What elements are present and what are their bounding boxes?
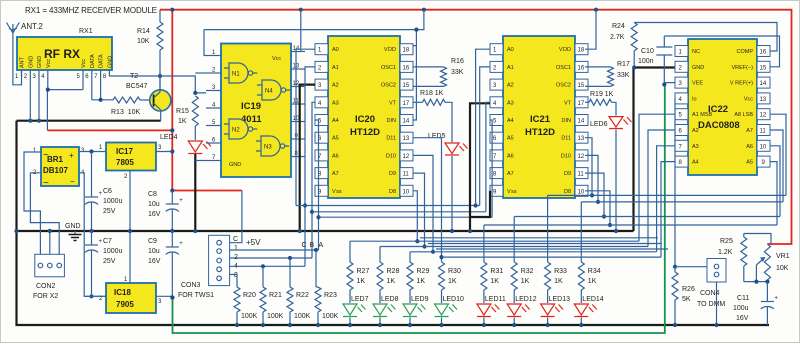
svg-text:1K: 1K	[178, 118, 187, 125]
svg-text:Vcc: Vcc	[744, 96, 753, 102]
wire data mesh horizontals to DAC	[350, 241, 661, 257]
resistor R25 1.2K	[718, 234, 771, 282]
connector CON4 TO DMM	[675, 259, 726, 328]
wire GND black bus	[14, 68, 769, 326]
svg-text:4011: 4011	[241, 114, 262, 125]
resistor R29 1K	[407, 262, 429, 303]
svg-text:OSC2: OSC2	[381, 83, 396, 89]
svg-text:+: +	[99, 191, 103, 197]
wire IC18 pin2 input	[84, 295, 106, 297]
svg-text:11: 11	[578, 172, 585, 178]
LED LED10	[435, 296, 465, 317]
svg-text:A2: A2	[332, 83, 339, 89]
svg-text:OSC1: OSC1	[381, 65, 396, 71]
svg-text:A7: A7	[746, 128, 753, 134]
wire IC21 A3/Vss to gnd (black)	[468, 103, 490, 233]
svg-text:C10: C10	[641, 48, 654, 55]
svg-text:OSC1: OSC1	[556, 65, 571, 71]
wire CON3 line 2	[230, 256, 312, 260]
svg-text:T2: T2	[130, 73, 138, 80]
wire RF RX pin8 / collector node to IC19 inputs	[109, 73, 206, 95]
svg-text:DATA: DATA	[90, 54, 96, 68]
svg-text:OSC2: OSC2	[556, 83, 571, 89]
svg-text:VT: VT	[389, 100, 397, 106]
wire LED13 cathode to bottom bus	[546, 318, 550, 328]
svg-text:18: 18	[403, 48, 410, 54]
resistor R26 5K	[672, 267, 695, 327]
svg-text:LED8: LED8	[381, 296, 399, 303]
wire LED9 cathode to bottom bus	[408, 318, 412, 328]
wire address mesh horizontals to IC21	[296, 203, 492, 217]
svg-text:12: 12	[578, 154, 585, 160]
svg-text:CON3: CON3	[181, 282, 201, 289]
svg-text:LED4: LED4	[160, 134, 178, 141]
svg-text:TO DMM: TO DMM	[697, 301, 725, 308]
svg-text:11: 11	[403, 172, 410, 178]
wire IC19 Vcc pin14 to +5V	[300, 10, 302, 52]
svg-text:100u: 100u	[733, 305, 749, 312]
svg-text:A8 LSB: A8 LSB	[734, 112, 753, 118]
wire IC22 data inputs A1-A4	[639, 114, 675, 257]
svg-text:100K: 100K	[267, 313, 284, 320]
svg-text:C11: C11	[737, 295, 749, 302]
svg-text:Vcc: Vcc	[46, 59, 52, 68]
svg-text:R19 1K: R19 1K	[590, 91, 614, 98]
svg-text:A6: A6	[746, 144, 753, 150]
wire extra data-bus lines to DAC	[420, 238, 668, 249]
svg-text:5K: 5K	[682, 296, 691, 303]
svg-text:R17: R17	[617, 61, 630, 68]
IC18 7905	[99, 277, 162, 313]
svg-text:R26: R26	[682, 286, 695, 293]
svg-text:D9: D9	[389, 171, 396, 177]
svg-text:A3: A3	[507, 100, 514, 106]
ground symbol	[65, 223, 82, 241]
potentiometer VR1 10K	[744, 244, 790, 284]
capacitor C11 100u 16V	[733, 282, 778, 325]
svg-text:D11: D11	[386, 136, 396, 142]
wire IC20 address pins to mesh	[296, 49, 321, 266]
svg-text:DB107: DB107	[43, 166, 68, 175]
resistor R22 100K	[287, 258, 311, 327]
svg-text:R15: R15	[176, 108, 189, 115]
svg-text:R29: R29	[417, 268, 430, 275]
svg-text:100K: 100K	[322, 313, 339, 320]
IC19 4011 body	[206, 44, 305, 178]
svg-text:1K: 1K	[417, 278, 426, 285]
svg-text:VT: VT	[564, 100, 572, 106]
svg-text:DIN: DIN	[562, 118, 572, 124]
svg-text:CON4: CON4	[700, 290, 720, 297]
svg-text:15: 15	[760, 65, 767, 71]
wire DIN riser IC20	[413, 46, 416, 120]
svg-text:14: 14	[578, 119, 585, 125]
svg-text:A4: A4	[692, 160, 699, 166]
svg-text:+: +	[774, 296, 778, 302]
svg-text:C8: C8	[148, 191, 157, 198]
svg-text:R22: R22	[296, 292, 309, 299]
svg-text:C6: C6	[103, 188, 112, 195]
svg-text:IC18: IC18	[114, 288, 131, 297]
svg-text:V REF(+): V REF(+)	[730, 81, 753, 87]
svg-text:ANT: ANT	[20, 56, 26, 68]
svg-text:LED9: LED9	[411, 296, 429, 303]
svg-text:+: +	[69, 151, 74, 160]
resistor R33 1K	[545, 262, 567, 303]
svg-text:1K: 1K	[357, 278, 366, 285]
svg-text:DATA: DATA	[99, 54, 105, 68]
svg-text:GND: GND	[37, 56, 43, 68]
LED LED5	[428, 133, 468, 155]
svg-text:VR1: VR1	[776, 253, 790, 260]
svg-text:10u: 10u	[148, 201, 160, 208]
resistor R19 1K	[585, 91, 616, 116]
wire LED14 cathode to bottom bus	[579, 318, 583, 328]
wire mesh horizontals LEDs 11-14 to IC22 A5-A8	[484, 195, 786, 262]
svg-text:1K: 1K	[588, 278, 597, 285]
svg-text:~: ~	[43, 150, 49, 161]
svg-text:BC547: BC547	[126, 83, 148, 90]
svg-text:1.2K: 1.2K	[718, 249, 733, 256]
capacitor C6 1000u 25V	[85, 152, 123, 234]
RF RX module RX1	[15, 28, 113, 80]
LED LED13	[541, 296, 571, 317]
svg-text:HT12D: HT12D	[525, 127, 555, 138]
svg-text:IC19: IC19	[241, 101, 261, 112]
wire RF RX pins 2,3 to gnd line	[30, 77, 39, 121]
svg-text:N4: N4	[265, 89, 273, 95]
svg-text:FOR X2: FOR X2	[33, 293, 58, 300]
svg-text:1K: 1K	[387, 278, 396, 285]
svg-text:10u: 10u	[148, 248, 160, 255]
gate N4	[257, 80, 290, 100]
svg-text:2.7K: 2.7K	[610, 34, 625, 41]
IC22 DAC0808	[675, 39, 770, 175]
svg-text:10K: 10K	[776, 265, 789, 272]
connector CON3 FOR TWS1	[178, 235, 238, 299]
svg-text:IC17: IC17	[116, 147, 133, 156]
svg-text:16: 16	[578, 65, 585, 71]
wire LED7 cathode to bottom bus	[348, 318, 352, 328]
resistor R30 1K	[439, 262, 461, 303]
svg-text:D8: D8	[389, 189, 396, 195]
svg-text:15: 15	[403, 83, 410, 89]
IC17 7805	[99, 143, 162, 181]
wire IC21 address pins to mesh	[476, 49, 493, 217]
svg-text:18: 18	[578, 48, 585, 54]
svg-text:+: +	[179, 241, 183, 247]
svg-text:−: −	[70, 177, 75, 186]
transistor T2 BC547	[126, 73, 171, 121]
wire IC21 VDD to +5V	[585, 10, 596, 50]
svg-text:R24: R24	[612, 23, 625, 30]
svg-text:D8: D8	[564, 189, 571, 195]
capacitor C9 10u 16V	[148, 231, 183, 300]
gate N3	[256, 136, 289, 156]
svg-text:A5: A5	[746, 160, 753, 166]
svg-text:A1 MSB: A1 MSB	[692, 112, 713, 118]
svg-text:1K: 1K	[554, 278, 563, 285]
svg-text:A6: A6	[507, 153, 514, 159]
svg-text:BR1: BR1	[47, 155, 64, 164]
svg-text:D9: D9	[564, 171, 571, 177]
wire IC20 A2/Vss to gnd (black)	[298, 85, 315, 234]
resistor R14	[137, 22, 163, 50]
svg-text:VREF(−): VREF(−)	[731, 65, 753, 71]
svg-text:IC21: IC21	[530, 114, 551, 125]
wire IC22 VEE pin3 to -5V green	[665, 82, 675, 84]
svg-text:R20: R20	[243, 292, 256, 299]
wire IC17 gnd / IC18 gnd riser	[128, 171, 132, 284]
wire CON2 centre to gnd	[48, 229, 52, 258]
svg-text:LED14: LED14	[582, 296, 604, 303]
svg-text:7805: 7805	[116, 158, 134, 167]
svg-text:D11: D11	[561, 136, 571, 142]
capacitor C8 10u 16V	[148, 191, 183, 234]
svg-text:V DD: V DD	[559, 47, 571, 53]
svg-text:A5: A5	[507, 136, 514, 142]
svg-text:1K: 1K	[448, 278, 457, 285]
svg-text:B: B	[310, 242, 315, 249]
svg-text:+: +	[179, 198, 183, 204]
wire +5V red rail top and right	[47, 8, 791, 244]
svg-text:33K: 33K	[451, 69, 464, 76]
connector CON2	[33, 254, 64, 300]
wire LED10 cathode to bottom bus	[439, 318, 443, 328]
svg-text:A: A	[319, 242, 324, 249]
svg-text:D10: D10	[561, 153, 571, 159]
svg-text:13: 13	[578, 136, 585, 142]
LED LED12	[507, 296, 537, 317]
svg-text:33K: 33K	[617, 72, 630, 79]
svg-text:LED11: LED11	[485, 296, 506, 303]
svg-text:17: 17	[403, 101, 410, 107]
svg-text:LED12: LED12	[515, 296, 537, 303]
svg-text:Vcc: Vcc	[81, 59, 87, 68]
svg-text:ANT.2: ANT.2	[21, 22, 43, 31]
gate N2	[224, 119, 257, 139]
svg-text:16V: 16V	[148, 211, 161, 218]
svg-text:C: C	[302, 242, 307, 249]
svg-text:LED10: LED10	[443, 296, 465, 303]
svg-text:1K: 1K	[490, 278, 499, 285]
wire IC17 out to +5V	[156, 151, 172, 153]
svg-text:RX1 = 433MHZ RECEIVER MODULE: RX1 = 433MHZ RECEIVER MODULE	[25, 6, 157, 15]
wire CON3 line 1	[230, 248, 319, 252]
svg-text:R34: R34	[588, 268, 601, 275]
svg-text:10: 10	[578, 189, 585, 195]
svg-text:LED7: LED7	[351, 296, 369, 303]
svg-text:V ss: V ss	[332, 189, 342, 195]
LED LED6	[590, 117, 632, 129]
svg-text:7905: 7905	[116, 300, 134, 309]
svg-text:A7: A7	[332, 171, 339, 177]
wire CON3 line 8 to R20	[230, 275, 237, 288]
wire -5V green net	[173, 85, 665, 334]
svg-text:Io: Io	[692, 96, 697, 102]
svg-text:14: 14	[760, 81, 767, 87]
svg-text:15: 15	[578, 83, 585, 89]
svg-text:R18 1K: R18 1K	[420, 90, 444, 97]
wire LED12 cathode to bottom bus	[512, 318, 516, 328]
svg-text:100K: 100K	[294, 313, 311, 320]
svg-text:LED5: LED5	[428, 133, 446, 140]
svg-text:R33: R33	[554, 268, 567, 275]
LED LED14	[574, 296, 604, 317]
LED LED9	[403, 296, 429, 317]
svg-text:16: 16	[403, 65, 410, 71]
bridge rectifier BR1 DB107	[33, 147, 85, 189]
wire BR1 AC inputs to CON2	[24, 152, 59, 258]
svg-text:R14: R14	[137, 28, 150, 35]
wire IC22 Io pin4 to R26/CON4	[673, 98, 677, 268]
svg-text:GND: GND	[692, 65, 704, 71]
wire R27,R28,R29 risers	[350, 241, 410, 262]
svg-text:25V: 25V	[103, 208, 116, 215]
svg-text:D10: D10	[386, 153, 396, 159]
antenna ANT.2	[7, 22, 44, 85]
svg-text:N3: N3	[264, 145, 272, 151]
svg-text:A4: A4	[507, 118, 514, 124]
wire LED8 cathode to bottom bus	[378, 318, 382, 328]
LED LED11	[477, 296, 506, 317]
capacitor C7 1000u 25V	[85, 231, 123, 296]
svg-text:DAC0808: DAC0808	[698, 120, 740, 131]
resistor R15	[176, 96, 198, 140]
resistor R28 1K	[377, 262, 399, 303]
svg-text:25V: 25V	[103, 258, 116, 265]
wire RF RX Vcc pins 4,5 to +5V	[46, 77, 83, 131]
svg-text:+: +	[99, 239, 103, 245]
svg-text:~: ~	[43, 178, 49, 189]
wire LED6 cathode to gnd bus	[614, 130, 618, 234]
wire CON3 C pin to +5V	[230, 191, 262, 248]
wire +5V top distribution line	[204, 10, 424, 56]
svg-text:C7: C7	[103, 238, 112, 245]
svg-text:A1: A1	[507, 65, 514, 71]
LED LED7	[343, 296, 369, 317]
svg-text:R16: R16	[451, 58, 464, 65]
IC21 HT12D	[490, 36, 588, 198]
resistor R34 1K	[578, 262, 600, 303]
svg-text:A2: A2	[507, 83, 514, 89]
svg-text:N1: N1	[232, 72, 240, 78]
svg-text:R13 10K: R13 10K	[111, 109, 141, 116]
svg-text:GND: GND	[65, 223, 81, 230]
resistor R20 100K	[234, 287, 258, 327]
resistor R18 1K	[413, 90, 452, 142]
svg-text:13: 13	[760, 97, 767, 103]
svg-text:12: 12	[403, 154, 410, 160]
svg-text:C9: C9	[148, 238, 157, 245]
svg-text:12: 12	[760, 113, 767, 119]
svg-text:+5V: +5V	[246, 238, 261, 247]
svg-text:IC20: IC20	[355, 114, 375, 125]
capacitor C10 100n	[638, 36, 780, 87]
svg-text:1: 1	[234, 245, 238, 252]
gate N1	[224, 63, 257, 83]
svg-text:100n: 100n	[638, 58, 654, 65]
svg-text:VEE: VEE	[692, 81, 703, 87]
svg-text:10: 10	[403, 189, 410, 195]
wire IC18 pin3 output to -5V	[156, 295, 175, 299]
wire CON3 line 4	[230, 264, 305, 268]
svg-text:100K: 100K	[241, 313, 258, 320]
svg-text:FOR TWS1: FOR TWS1	[178, 292, 214, 299]
svg-text:16V: 16V	[736, 315, 749, 322]
resistor R31 1K	[481, 262, 503, 303]
svg-text:LED13: LED13	[549, 296, 571, 303]
svg-text:GND: GND	[28, 56, 34, 68]
svg-text:NC: NC	[692, 49, 700, 55]
wire BR1 + output to IC17	[79, 149, 106, 153]
svg-text:Vcc: Vcc	[272, 56, 281, 62]
resistor R27 1K	[347, 262, 369, 303]
svg-text:1000u: 1000u	[103, 248, 123, 255]
resistor R13	[111, 97, 150, 116]
svg-text:10K: 10K	[137, 38, 150, 45]
svg-text:DIN: DIN	[387, 118, 397, 124]
LED LED8	[373, 296, 399, 317]
svg-text:1000u: 1000u	[103, 198, 123, 205]
svg-text:16: 16	[760, 50, 767, 56]
wire IC22 right pins A5-A8 to mesh	[770, 114, 786, 225]
resistor R16 33K	[413, 58, 464, 86]
svg-text:R31: R31	[490, 268, 503, 275]
node +5V corner to R14	[158, 10, 162, 90]
LED LED4	[160, 134, 211, 154]
svg-text:A3: A3	[692, 144, 699, 150]
svg-text:10: 10	[760, 144, 767, 150]
svg-text:R27: R27	[357, 268, 370, 275]
wire BR1 - output to IC18	[79, 173, 106, 299]
svg-text:R28: R28	[387, 268, 400, 275]
svg-text:A1: A1	[332, 65, 339, 71]
svg-text:17: 17	[578, 101, 585, 107]
svg-text:A0: A0	[332, 47, 339, 53]
svg-text:16V: 16V	[148, 258, 161, 265]
wire IC21 data outputs D8-D11 to LEDs 11-14 and DAC A5-A8	[585, 138, 612, 227]
IC20 HT12D	[315, 36, 413, 198]
svg-text:GND: GND	[229, 162, 241, 168]
svg-text:R23: R23	[324, 292, 337, 299]
resistor R24 2.7K	[610, 23, 777, 70]
svg-text:A2: A2	[692, 128, 699, 134]
svg-text:A4: A4	[332, 118, 339, 124]
svg-text:A3: A3	[332, 100, 339, 106]
svg-text:14: 14	[403, 119, 410, 125]
svg-text:CON2: CON2	[36, 283, 56, 290]
svg-text:A6: A6	[332, 153, 339, 159]
svg-text:V ss: V ss	[507, 189, 517, 195]
svg-text:13: 13	[403, 136, 410, 142]
svg-text:GND: GND	[107, 56, 113, 68]
svg-text:A5: A5	[332, 136, 339, 142]
wire IC20 data outputs D8-D11 to mesh	[413, 138, 444, 262]
wire LED4 cathode to gnd bus	[193, 154, 206, 233]
resistor R17 33K	[585, 61, 630, 86]
wire LED5 cathode to gnd bus	[450, 156, 454, 233]
svg-text:A0: A0	[507, 47, 514, 53]
svg-text:RX1: RX1	[79, 28, 93, 35]
svg-text:R30: R30	[448, 268, 461, 275]
svg-text:C: C	[233, 236, 238, 243]
svg-text:A7: A7	[507, 171, 514, 177]
svg-text:V DD: V DD	[384, 47, 396, 53]
resistor R23 100K	[315, 250, 339, 327]
resistor R21 100K	[260, 266, 284, 327]
svg-text:N2: N2	[232, 128, 240, 134]
